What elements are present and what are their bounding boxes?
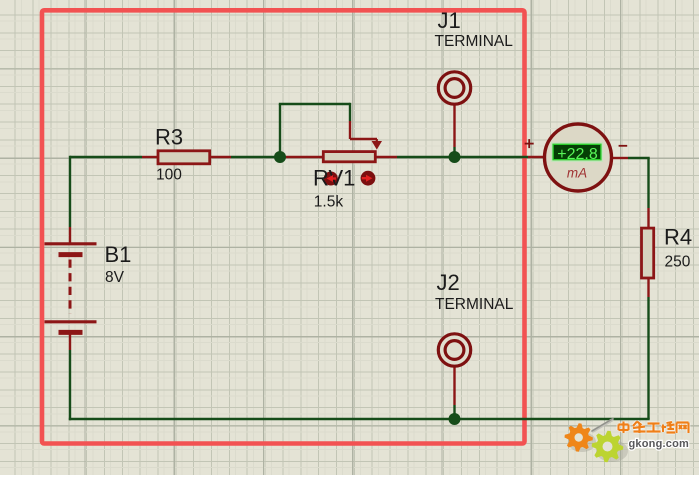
svg-text:R4: R4	[664, 225, 692, 250]
svg-text:100: 100	[156, 166, 182, 183]
svg-text:gkong.com: gkong.com	[629, 438, 689, 450]
svg-text:TERMINAL: TERMINAL	[435, 296, 514, 313]
svg-text:R3: R3	[155, 124, 183, 149]
svg-text:mA: mA	[567, 166, 587, 181]
svg-text:8V: 8V	[105, 269, 125, 286]
svg-text:TERMINAL: TERMINAL	[435, 33, 514, 50]
svg-text:+22.8: +22.8	[557, 146, 598, 163]
svg-text:J2: J2	[437, 270, 460, 295]
svg-text:250: 250	[665, 254, 691, 271]
svg-text:J1: J1	[438, 8, 461, 33]
svg-text:B1: B1	[105, 242, 132, 267]
svg-text:1.5k: 1.5k	[314, 193, 344, 210]
